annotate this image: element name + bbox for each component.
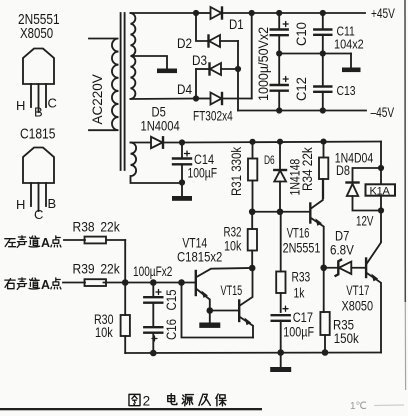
pin B xyxy=(45,183,47,206)
svg-text:2N5551: 2N5551 xyxy=(283,240,321,256)
diode D1 xyxy=(196,7,252,19)
caption 图2 电源及保 xyxy=(129,394,226,409)
svg-text:1℃: 1℃ xyxy=(350,401,367,412)
pin C xyxy=(38,183,40,211)
svg-text:D4: D4 xyxy=(177,81,192,97)
wire emitter node to VT15 base xyxy=(210,310,239,312)
capacitor C13 film xyxy=(314,54,331,111)
wire VT15 emitter feedback to VT14 base node xyxy=(182,283,254,338)
node VT16 emitter / D7 / R35 xyxy=(320,264,327,271)
capacitor C10 electrolytic xyxy=(271,13,289,54)
svg-text:1000µ/50Vx2: 1000µ/50Vx2 xyxy=(256,27,272,101)
node C14 / aux winding return xyxy=(179,179,185,185)
svg-text:D2: D2 xyxy=(177,35,192,51)
package body TO-92 outline xyxy=(23,148,54,184)
node rail / R31 xyxy=(249,139,255,145)
svg-text:R38 22k: R38 22k xyxy=(73,219,121,235)
wire center tap xyxy=(132,56,167,69)
mid rail xyxy=(279,53,351,55)
resistor R33 xyxy=(276,212,285,312)
wire D2 to D3 junction xyxy=(237,41,239,69)
capacitor C12 electrolytic xyxy=(271,54,289,111)
svg-text:K1A: K1A xyxy=(370,185,391,197)
node relay bottom xyxy=(378,207,384,213)
relay coil K1A xyxy=(366,184,396,197)
svg-text:12V: 12V xyxy=(356,213,373,229)
node VT14 emitter junction xyxy=(207,307,214,314)
node rail / R34 xyxy=(320,139,326,145)
svg-text:C1815x2: C1815x2 xyxy=(177,248,222,264)
svg-text:A: A xyxy=(41,236,50,250)
svg-text:FT302x4: FT302x4 xyxy=(193,108,233,124)
node -45 rail / C13 xyxy=(320,107,326,113)
wire top node to D2 row xyxy=(196,13,209,41)
svg-text:10k: 10k xyxy=(95,325,113,341)
svg-text:X8050: X8050 xyxy=(342,298,374,314)
svg-text:D8: D8 xyxy=(336,163,350,179)
resistor R34 xyxy=(319,142,328,198)
svg-text:150k: 150k xyxy=(334,330,359,346)
pin C xyxy=(45,84,47,107)
zener diode D7 xyxy=(324,260,366,276)
transistor VT15 xyxy=(239,268,253,338)
svg-text:R39 22k: R39 22k xyxy=(73,261,121,277)
node base row / R31 R32 xyxy=(249,208,256,215)
svg-text:100µF: 100µF xyxy=(188,165,218,181)
wire mid rail to ground xyxy=(350,54,352,68)
svg-text:D6: D6 xyxy=(264,155,275,168)
transistor VT17 xyxy=(366,242,381,353)
svg-text:–45V: –45V xyxy=(371,105,395,121)
node input rail / C15 xyxy=(150,279,157,286)
diode D5 xyxy=(151,137,182,148)
svg-text:2: 2 xyxy=(143,394,151,409)
wire secondary top lead to bridge xyxy=(131,12,197,14)
legend transistor package C1815 xyxy=(16,125,56,222)
node -45 rail / C12 xyxy=(276,107,282,113)
svg-text:R33: R33 xyxy=(292,269,311,285)
svg-text:H: H xyxy=(16,98,25,113)
node mid rail / C10 xyxy=(276,50,282,56)
pin B xyxy=(38,84,40,112)
bottom rail xyxy=(125,352,381,355)
wire R38 down to input rail xyxy=(124,240,126,283)
transformer main secondary winding xyxy=(131,13,136,99)
resistor R31 xyxy=(248,142,257,212)
svg-text:C: C xyxy=(48,96,57,111)
capacitor C14 electrolytic xyxy=(173,143,191,183)
diode D4 xyxy=(196,93,252,105)
capacitor C17 electrolytic xyxy=(272,306,290,352)
diode D8 xyxy=(347,168,382,211)
svg-text:D3: D3 xyxy=(192,52,207,68)
transformer aux secondary winding xyxy=(131,143,183,184)
-45V rail xyxy=(238,110,366,112)
resistor R39 xyxy=(63,279,195,286)
svg-text:C13: C13 xyxy=(337,84,356,98)
diode D2 xyxy=(209,35,239,47)
wire ground stub xyxy=(280,353,282,368)
svg-text:C: C xyxy=(34,207,43,222)
svg-text:1N4004: 1N4004 xyxy=(141,118,180,133)
node relay top xyxy=(378,165,384,171)
resistor R32 xyxy=(248,212,257,268)
label right-channel point A (hanzi) xyxy=(5,278,61,292)
+45V rail xyxy=(252,12,365,14)
base row wire xyxy=(252,211,309,213)
node bottom rail / R35 xyxy=(322,349,329,356)
wire secondary bottom lead to bridge xyxy=(131,98,197,101)
node +45 rail / C11 xyxy=(320,10,326,16)
ground center tap xyxy=(157,69,177,74)
resistor R30 xyxy=(121,283,130,354)
wire emitter node to ground xyxy=(209,311,211,323)
svg-text:100µFx2: 100µFx2 xyxy=(133,263,173,279)
wire C14 node to ground xyxy=(181,183,183,197)
label left-channel point A (hanzi) xyxy=(5,236,61,250)
svg-text:X8050: X8050 xyxy=(20,25,53,42)
svg-text:C10: C10 xyxy=(294,22,310,46)
svg-text:C12: C12 xyxy=(294,77,310,101)
node D5 / C14 xyxy=(179,139,185,145)
diode D6 xyxy=(274,142,286,212)
page edge artifact right xyxy=(404,0,406,302)
ground VT14 emitter xyxy=(199,323,220,328)
svg-text:10k: 10k xyxy=(224,238,242,254)
svg-text:C16: C16 xyxy=(163,319,179,340)
faint page mark bottom-right xyxy=(350,401,404,412)
wire relay bottom to VT17 collector xyxy=(380,211,382,242)
svg-text:1k: 1k xyxy=(294,285,306,301)
node mid rail / C11 xyxy=(320,50,326,56)
svg-text:AC220V: AC220V xyxy=(90,74,105,124)
legend transistor package 2N5551/X8050 xyxy=(16,11,60,120)
svg-text:+45V: +45V xyxy=(371,6,395,22)
wire junction down to -45 rail xyxy=(237,69,239,111)
svg-text:VT15: VT15 xyxy=(221,282,243,299)
svg-text:B: B xyxy=(34,105,43,120)
capacitor C15 electrolytic xyxy=(144,283,162,327)
svg-text:C1815: C1815 xyxy=(20,125,55,141)
svg-text:VT17: VT17 xyxy=(346,282,369,298)
node R32 bottom / collectors xyxy=(249,265,256,272)
pin E xyxy=(30,183,32,206)
svg-text:A: A xyxy=(41,278,50,292)
svg-text:R31 330k: R31 330k xyxy=(228,146,244,196)
node bottom rail / C16 xyxy=(150,350,157,357)
wire aux secondary top lead xyxy=(131,142,151,144)
wire D3 to bottom node xyxy=(195,69,197,99)
capacitor C11 film xyxy=(314,13,331,54)
svg-text:VT16: VT16 xyxy=(287,225,310,241)
transistor VT16 xyxy=(310,179,323,268)
svg-text:H: H xyxy=(16,197,25,212)
node secondary top xyxy=(193,10,199,16)
pin E xyxy=(30,84,32,107)
svg-text:C17: C17 xyxy=(293,310,313,326)
node bottom rail / C17 ground xyxy=(277,349,284,356)
node secondary bottom xyxy=(193,95,199,101)
svg-text:R34 22k: R34 22k xyxy=(299,147,315,191)
node input rail / R38 R30 xyxy=(122,279,129,286)
package body TO-92 outline xyxy=(23,49,54,85)
node rail / D6 xyxy=(277,139,283,145)
ground bottom rail xyxy=(270,367,291,372)
svg-text:B: B xyxy=(48,196,57,211)
capacitor C16 electrolytic xyxy=(144,327,162,353)
svg-text:6.8V: 6.8V xyxy=(330,241,354,257)
resistor R38 xyxy=(64,237,125,244)
node +45 rail / C10 xyxy=(276,10,282,16)
page rule bottom-left xyxy=(0,408,262,410)
svg-text:C15: C15 xyxy=(163,289,179,310)
node input rail / VT14 base xyxy=(178,279,185,286)
svg-text:104x2: 104x2 xyxy=(334,37,364,52)
node base row / D6 R33 xyxy=(277,208,284,215)
aux supply rail xyxy=(182,142,381,143)
diode D3 xyxy=(196,63,238,75)
svg-text:D1: D1 xyxy=(229,16,244,32)
ground mid rail xyxy=(342,68,361,73)
ground C14 xyxy=(172,196,192,201)
transformer primary winding xyxy=(89,39,119,131)
transistor VT14 xyxy=(196,268,252,311)
node +45 rail / D4 xyxy=(249,10,255,16)
node D2/D3 junction xyxy=(235,66,241,72)
svg-text:100µF: 100µF xyxy=(283,324,314,340)
transformer T1 core xyxy=(121,13,125,170)
resistor R35 xyxy=(320,268,329,353)
wire rail corner down to relay xyxy=(380,142,382,169)
wire relay vertical xyxy=(380,168,382,211)
wire D4 up to +45 rail xyxy=(251,13,253,99)
